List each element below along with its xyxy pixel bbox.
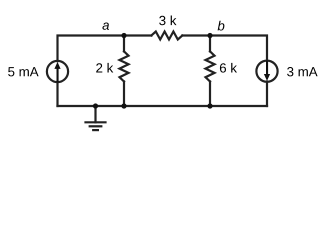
wire node a down to 2k top lead xyxy=(123,36,125,52)
label 2 k xyxy=(96,63,113,73)
wire top rail left (source top to node a to 3k left lead) xyxy=(58,36,152,62)
wire top rail right (3k right lead to node b to right source top) xyxy=(182,36,267,61)
label 3 k xyxy=(159,16,176,26)
I2 arrow (down) xyxy=(264,61,270,81)
wire node b down to 6k top lead xyxy=(209,36,211,52)
resistor R1 3 k (horizontal between node a and node b) xyxy=(151,32,182,40)
label 3 mA xyxy=(287,67,318,76)
label b xyxy=(218,21,225,31)
current source I1 5 mA circle xyxy=(47,61,68,82)
ground bar 1 xyxy=(86,121,106,123)
junction dot node b xyxy=(207,33,212,38)
resistor R3 6 k (vertical at node b) xyxy=(206,51,215,81)
ground bar 3 xyxy=(93,129,98,131)
junction dot ground xyxy=(93,103,98,108)
junction dot 2k bottom xyxy=(121,103,126,108)
label a xyxy=(102,23,109,30)
current source I2 3 mA circle xyxy=(256,61,277,82)
resistor R2 2 k (vertical at node a) xyxy=(120,51,129,81)
junction dot 6k bottom xyxy=(207,103,212,108)
wire bottom rail xyxy=(58,105,268,107)
wire 6k bottom lead to bottom rail xyxy=(209,82,211,107)
I1 arrow (up) xyxy=(54,62,60,82)
wire left source bottom to bottom rail xyxy=(56,82,58,106)
wire right source bottom to bottom rail xyxy=(266,82,268,107)
wire 2k bottom lead to bottom rail xyxy=(123,82,125,107)
label 6 k xyxy=(220,63,237,73)
junction dot node a xyxy=(121,33,126,38)
label 5 mA xyxy=(8,67,38,76)
ground bar 2 xyxy=(90,125,102,127)
ground stem xyxy=(94,106,96,122)
